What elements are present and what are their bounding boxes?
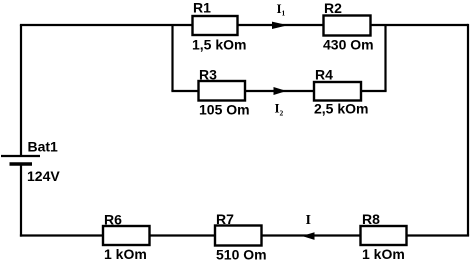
wire right (top-right corner to bottom-right corner): [467, 24, 469, 236]
wire junction left vertical (node A: top wire down to middle branch): [171, 25, 173, 91]
resistor R4 body: [314, 82, 361, 101]
wire bottom (bottom-right corner to bottom-left corner): [20, 234, 469, 236]
wire top (top-left corner to top-right corner): [20, 24, 468, 26]
svg-text:124V: 124V: [27, 168, 60, 184]
svg-text:1: 1: [282, 8, 286, 17]
svg-text:I: I: [306, 213, 311, 228]
svg-text:1,5 kOm: 1,5 kOm: [192, 37, 246, 53]
svg-text:510 Om: 510 Om: [216, 247, 267, 262]
resistor R7 body: [215, 226, 262, 246]
current arrow I on bottom wire (pointing left): [302, 232, 315, 240]
resistor R6 body: [103, 226, 150, 245]
svg-text:1 kOm: 1 kOm: [104, 246, 147, 262]
current arrow I2 on middle branch (pointing right): [274, 87, 287, 95]
svg-text:R2: R2: [324, 0, 342, 16]
battery Bat1 short plate (-): [10, 162, 33, 165]
svg-text:430 Om: 430 Om: [323, 37, 374, 53]
svg-text:Bat1: Bat1: [28, 139, 59, 155]
svg-text:R7: R7: [216, 211, 234, 227]
wire middle branch (R3 - R4 horizontal): [171, 90, 386, 92]
battery Bat1 long plate (+): [1, 155, 40, 157]
wire left lower (bottom-left corner up to battery - terminal): [20, 164, 22, 237]
svg-text:105 Om: 105 Om: [199, 102, 250, 118]
svg-text:R6: R6: [104, 212, 122, 228]
resistor R3 body: [199, 81, 246, 101]
resistor R1 body: [193, 16, 238, 35]
svg-text:R8: R8: [362, 211, 380, 227]
wire junction right vertical (node B: middle branch up to top wire): [384, 25, 386, 91]
svg-text:2: 2: [280, 108, 284, 117]
svg-text:R3: R3: [199, 67, 217, 83]
svg-text:1 kOm: 1 kOm: [362, 246, 405, 262]
svg-text:2,5 kOm: 2,5 kOm: [314, 101, 368, 117]
current arrow I1 on top branch (pointing right): [272, 22, 288, 29]
svg-text:R1: R1: [193, 0, 211, 16]
wire left upper (battery + terminal to top-left corner): [20, 25, 22, 156]
resistor R8 body: [361, 226, 407, 245]
svg-text:R4: R4: [315, 67, 333, 83]
resistor R2 body: [324, 16, 371, 36]
